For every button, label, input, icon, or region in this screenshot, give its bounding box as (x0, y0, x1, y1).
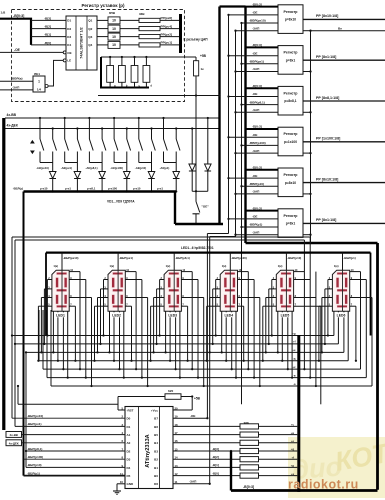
svg-text:33В: 33В (139, 12, 145, 16)
svg-text:1(к): 1(к) (222, 264, 227, 268)
svg-text:D1: D1 (67, 19, 71, 23)
svg-text:-ОЕ: -ОЕ (252, 215, 258, 219)
svg-text:VD1...VD9 ГД507А: VD1...VD9 ГД507А (107, 200, 135, 204)
thick data bus vertical east (244, 7, 246, 244)
svg-text:620: 620 (168, 389, 173, 393)
resistor 366 #7 (240, 473, 259, 478)
svg-text:-В[0:3]: -В[0:3] (243, 485, 254, 489)
svg-text:р=8х8,1: р=8х8,1 (284, 99, 296, 103)
LED1 pin 8 (69, 297, 91, 299)
svg-text:-ВБР(р10): -ВБР(р10) (249, 182, 264, 186)
svg-text:-ОЕ: -ОЕ (14, 48, 21, 52)
svg-text:GND: GND (127, 482, 135, 486)
svg-text:-АК(р8,1): -АК(р8,1) (85, 166, 97, 170)
svg-text:Q3: Q3 (88, 35, 92, 39)
svg-text:ЛЕ1: ЛЕ1 (34, 72, 40, 76)
svg-text:+е: +е (291, 440, 295, 443)
left bus bar (2, 118, 5, 430)
svg-text:LE: LE (67, 59, 71, 63)
LED5 pin 3 (269, 288, 277, 290)
segment net row +е (26, 351, 344, 353)
svg-text:D2: D2 (67, 27, 71, 31)
wire -В[0] (31, 44, 66, 46)
svg-text:р=1х100: р=1х100 (284, 140, 297, 144)
svg-text:Регистр: Регистр (284, 214, 299, 218)
wire Q3 (97, 36, 108, 38)
svg-text:1(к): 1(к) (334, 264, 339, 268)
svg-text:-В[1]: -В[1] (44, 33, 51, 37)
watermark tint (288, 437, 385, 498)
netlabel -VBR reg6 (240, 226, 242, 228)
LED4 bottom pins (221, 311, 223, 352)
netlabel -D[0:3] reg6 (246, 210, 279, 212)
svg-text:-ЗАП: -ЗАП (189, 479, 197, 483)
svg-text:-ВБР(рх10): -ВБР(рх10) (63, 256, 79, 260)
LED4 pin 4 (210, 297, 221, 299)
svg-text:+е: +е (292, 349, 296, 352)
svg-text:-ЗАП: -ЗАП (252, 230, 260, 234)
bold B bus vertical (230, 451, 232, 491)
wire to resistor 33 (120, 44, 139, 46)
svg-text:B7: B7 (154, 417, 158, 421)
LED3 pin 9 (181, 279, 198, 281)
svg-text:-D[0:3]: -D[0:3] (252, 2, 262, 6)
display LED6 cathode wire (342, 253, 344, 271)
MCU U7 ATtiny2313A (125, 407, 173, 489)
wire -В[1] (31, 36, 66, 38)
wire mcu pin 6 (22, 442, 126, 444)
LED6 pin 7 (350, 305, 356, 307)
svg-text:4х-ВВ: 4х-ВВ (7, 113, 17, 117)
svg-text:-В[2]: -В[2] (212, 455, 219, 459)
display LED4 cathode wire (229, 253, 231, 271)
svg-text:-ЗАП: -ЗАП (252, 67, 260, 71)
svg-text:р-и1: р-и1 (157, 187, 163, 191)
svg-text:1(к): 1(к) (110, 264, 115, 268)
LED4 pin 2 (216, 279, 221, 281)
wire aux row a (18, 403, 118, 405)
svg-text:-ЗАП: -ЗАП (252, 26, 260, 30)
svg-text:-В[2]: -В[2] (44, 25, 51, 29)
svg-text:-в: -в (293, 374, 296, 377)
svg-text:-ВБР(в): -ВБР(в) (11, 76, 23, 80)
svg-text:РР [8х10:1/8]: РР [8х10:1/8] (316, 14, 338, 18)
display LED1 body (52, 270, 69, 311)
svg-text:1(к): 1(к) (53, 264, 58, 268)
resistor a (107, 66, 114, 83)
netlabel -D[0:3] reg1 (246, 6, 279, 8)
svg-text:-АК(р1): -АК(р1) (160, 166, 170, 170)
svg-text:р-и100: р-и100 (108, 187, 117, 191)
LED5 pin 10 (294, 271, 305, 273)
display LED3 segments (168, 272, 179, 275)
svg-text:р-и10: р-и10 (40, 187, 48, 191)
row 3 left riser (38, 310, 40, 361)
resistor 366 #2 (240, 432, 259, 437)
svg-text:4х-ВВ: 4х-ВВ (10, 433, 18, 437)
display LED5 segments (281, 272, 292, 275)
netlabel -ZAP reg1 (234, 30, 236, 32)
svg-text:-ВБР(р100): -ВБР(р100) (249, 141, 266, 145)
svg-text:-ВБР(р10): -ВБР(р10) (27, 463, 42, 467)
wire -В[2] (31, 28, 66, 30)
wire +5 rail (98, 95, 220, 97)
connector bar right (297, 335, 300, 492)
svg-text:-В[3]: -В[3] (44, 16, 51, 20)
LED5 pin 4 (266, 297, 277, 299)
wire to R7 (173, 475, 240, 477)
LED4 pin 10 (238, 271, 249, 273)
LED5 pin 8 (294, 297, 316, 299)
svg-text:+g: +g (292, 332, 296, 335)
bus vertical -OE net (228, 15, 230, 234)
segment net row -д (39, 360, 348, 362)
svg-text:-ОЕ: -ОЕ (190, 414, 196, 418)
display LED1 through wire (61, 270, 63, 311)
row end g (11, 334, 13, 336)
svg-text:"ОЕ": "ОЕ" (202, 205, 210, 209)
diode VD9 (207, 117, 209, 119)
LED6 bottom pins (333, 311, 335, 335)
thick cathode bus (24, 190, 177, 192)
svg-text:10: 10 (112, 19, 116, 23)
display LED2 cathode wire (117, 253, 119, 271)
resistor 10 #1 (108, 17, 120, 24)
display LED3 cathode wire (173, 253, 175, 271)
svg-text:р=8х1: р=8х1 (286, 222, 296, 226)
register U4 box (278, 86, 303, 115)
LED6 pin 2 (328, 279, 333, 281)
svg-text:-ВБР(р1): -ВБР(р1) (27, 471, 40, 475)
LED2 pin 5 (95, 305, 109, 307)
register U5 box (278, 127, 303, 156)
netlabel -VBR reg1 (240, 22, 242, 24)
wire Vcc (173, 409, 192, 411)
wire mcu pin 2 (12, 417, 125, 419)
LED3 pin 3 (157, 288, 165, 290)
netlabel -VBR reg3 (240, 103, 242, 105)
svg-text:Q2: Q2 (88, 27, 92, 31)
row tap e (25, 352, 27, 467)
svg-text:-ВБР(р100): -ВБР(р100) (27, 455, 43, 459)
bus tap 4x-VV (6, 432, 22, 438)
svg-text:р-и8,1: р-и8,1 (87, 187, 96, 191)
wire -ZAP to mcu (173, 483, 210, 485)
resistor 10 #3 (108, 33, 120, 40)
svg-text:р=8х1: р=8х1 (286, 58, 296, 62)
svg-text:-ВБР(рх1): -ВБР(рх1) (119, 256, 133, 260)
svg-text:D0: D0 (127, 417, 131, 421)
svg-text:-АК(р10): -АК(р10) (135, 166, 146, 170)
LED4 pin 3 (213, 288, 221, 290)
display LED2 through wire (117, 270, 119, 311)
LED3 pin 8 (181, 297, 203, 299)
resistor b (119, 66, 126, 83)
display LED4 segments (225, 272, 236, 275)
LED3 pin 4 (154, 297, 165, 299)
netlabel -OE reg5 (227, 177, 229, 179)
LED2 pin 10 (125, 271, 136, 273)
LED6 pin 5 (319, 305, 333, 307)
wire to R5 (173, 458, 240, 460)
wire PP output reg6 (303, 222, 385, 224)
svg-text:-АК(рх10): -АК(рх10) (36, 166, 49, 170)
display LED1 segments (56, 272, 67, 275)
svg-text:10: 10 (112, 43, 116, 47)
svg-text:-ВБР(рх10): -ВБР(рх10) (249, 19, 266, 23)
svg-text:-ВБР(р1): -ВБР(р1) (343, 256, 355, 260)
register U3 box (278, 46, 303, 75)
segment net row -в (47, 377, 366, 379)
wire to R2 (173, 434, 240, 436)
svg-text:+g: +g (291, 448, 295, 451)
svg-text:LED4: LED4 (224, 314, 233, 318)
wire mcu pin 3 (15, 425, 125, 427)
row 4 left riser (42, 310, 44, 369)
wire LE1 out to LE pin (48, 60, 63, 86)
LED2 bottom pins (109, 311, 111, 352)
wire mcu pin 7 (26, 450, 125, 452)
svg-text:1: 1 (38, 80, 40, 84)
wire Q2 (97, 28, 108, 30)
svg-text:-ОЕ: -ОЕ (252, 174, 258, 178)
LED3 pin 2 (160, 279, 165, 281)
bus aux dot (218, 94, 220, 96)
LED1 pin 2 (47, 279, 52, 281)
svg-text:-ОЕ: -ОЕ (252, 92, 258, 96)
diode VD5 (151, 163, 153, 172)
wire 1k to switch OE (195, 76, 197, 96)
svg-text:LED1: LED1 (56, 314, 65, 318)
svg-text:Q1: Q1 (88, 19, 92, 23)
svg-text:р=8х10: р=8х10 (285, 181, 296, 185)
wire to R4 (173, 450, 240, 452)
wire PP out #4 (160, 44, 179, 46)
svg-text:-ЗАП: -ЗАП (252, 149, 260, 153)
svg-text:+с: +с (292, 366, 296, 369)
register U6 box (278, 168, 303, 197)
row end f (14, 343, 16, 345)
svg-text:1/4: 1/4 (37, 88, 42, 92)
svg-text:-D[0:3]: -D[0:3] (252, 206, 262, 210)
wire reg6 chain pin (303, 234, 311, 236)
svg-text:-В[1]: -В[1] (212, 463, 219, 467)
netlabel -D[0:3] reg5 (246, 169, 279, 171)
svg-text:A1: A1 (127, 433, 131, 437)
LED1 pin 10 (69, 271, 80, 273)
svg-text:-D[0:3]: -D[0:3] (252, 84, 262, 88)
svg-text:РР [1х100:1/8]: РР [1х100:1/8] (316, 137, 340, 141)
svg-text:A0: A0 (127, 441, 131, 445)
svg-text:+в: +в (291, 432, 295, 435)
LED5 pin 9 (294, 279, 311, 281)
svg-text:Ве: Ве (338, 27, 342, 31)
svg-text:-В[0]: -В[0] (44, 41, 51, 45)
wire mcu pin 4 (22, 434, 126, 436)
svg-text:+5В: +5В (194, 397, 201, 401)
svg-text:-АК(р100): -АК(р100) (110, 166, 123, 170)
wire PP output reg5 (303, 182, 385, 184)
svg-text:р-и10: р-и10 (133, 187, 141, 191)
wire to R1 (173, 425, 240, 427)
svg-text:-ЗАП: -ЗАП (252, 108, 260, 112)
netlabel -VBR reg5 (240, 185, 242, 187)
resistor 366 #3 (240, 440, 259, 445)
wrap wire A (12, 236, 310, 238)
connector bar DAC (179, 14, 182, 53)
segment net row +с (43, 368, 361, 370)
svg-text:РР [8х8,1:1/8]: РР [8х8,1:1/8] (316, 96, 339, 100)
resistor 366 #5 (240, 457, 259, 462)
wire PP out #2 (160, 28, 179, 30)
LED3 pin 10 (181, 271, 192, 273)
svg-text:Регистр: Регистр (284, 173, 299, 177)
svg-text:РР [8х1:1/8]: РР [8х1:1/8] (316, 218, 336, 222)
segment net row +g (12, 335, 334, 337)
svg-text:ОЕ: ОЕ (67, 51, 71, 55)
mcu gnd (117, 483, 125, 485)
netlabel -ZAP reg6 (234, 234, 236, 236)
row 5 left riser (46, 310, 48, 378)
LED1 pin 7 (69, 305, 75, 307)
svg-text:Регистр: Регистр (284, 10, 299, 14)
svg-text:р-и1: р-и1 (65, 187, 71, 191)
svg-text:D2: D2 (127, 449, 131, 453)
switch group 1 (39, 117, 41, 119)
svg-text:74ALS873ВНТ 1/2: 74ALS873ВНТ 1/2 (80, 27, 84, 58)
LED1 pin 4 (41, 297, 52, 299)
LED5 bottom pins (277, 311, 279, 352)
svg-text:10: 10 (112, 27, 116, 31)
netlabel -D[0:3] reg4 (246, 128, 279, 130)
svg-text:-ЗАП: -ЗАП (12, 85, 20, 89)
svg-text:Регистр: Регистр (284, 132, 299, 136)
netlabel -OE reg4 (227, 136, 229, 138)
svg-text:-D[0:3]: -D[0:3] (252, 43, 262, 47)
svg-text:B3: B3 (154, 449, 158, 453)
wire Q4 (97, 44, 108, 46)
display LED4 body (220, 270, 237, 311)
LED4 pin 5 (207, 305, 221, 307)
switch group 2 (64, 117, 66, 119)
svg-text:-В[0:3]: -В[0:3] (13, 14, 24, 18)
diode VD6 (175, 163, 177, 172)
thick right loop vertical (376, 243, 379, 490)
svg-text:D5: D5 (127, 474, 131, 478)
svg-text:LED2: LED2 (112, 314, 121, 318)
svg-text:-В[3]: -В[3] (212, 447, 219, 451)
svg-text:-ВБР(рх1): -ВБР(рх1) (249, 60, 264, 64)
LED2 pin 7 (125, 305, 131, 307)
display LED6 segments (337, 272, 348, 275)
display LED4 through wire (229, 270, 231, 311)
segment net row +f (15, 343, 338, 345)
svg-text:1;В: 1;В (1, 11, 7, 15)
svg-text:B5: B5 (154, 433, 158, 437)
wrap wire B (15, 239, 304, 241)
register chip U1 74ALS873 (66, 16, 97, 70)
arrow up marker (30, 140, 35, 144)
netlabel -ZAP reg2 (234, 70, 236, 72)
resistor 366 #6 (240, 465, 259, 470)
resistor 33V #3 (139, 35, 160, 39)
wire PP output reg3 (303, 100, 385, 102)
svg-text:Регистр: Регистр (284, 91, 299, 95)
register U2 box (278, 5, 303, 34)
netlabel -D[0:3] reg2 (246, 46, 279, 48)
svg-text:+5В: +5В (200, 54, 207, 58)
LED3 bottom pins (165, 311, 167, 352)
svg-text:8ПВ: 8ПВ (109, 11, 116, 15)
svg-text:B2: B2 (154, 458, 158, 462)
wire to R3 (173, 442, 240, 444)
wire to R6 (173, 466, 240, 468)
wire PP output reg4 (303, 141, 385, 143)
svg-text:1(к): 1(к) (166, 264, 171, 268)
wire mcu pin 11 (24, 475, 126, 477)
svg-text:D4: D4 (127, 466, 131, 470)
diode VD2 (76, 163, 78, 172)
wire reg4 chain pin (303, 152, 311, 154)
netlabel -ZAP reg4 (234, 152, 236, 154)
row 6 left riser (50, 310, 52, 386)
switch group 5 (138, 117, 140, 119)
svg-text:B0: B0 (154, 474, 158, 478)
LED6 pin 9 (350, 279, 367, 281)
display LED5 cathode wire (285, 253, 287, 271)
diode VD4 (126, 163, 128, 172)
svg-text:-D[0:3]: -D[0:3] (252, 125, 262, 129)
svg-text:-ВБР(р8,1): -ВБР(р8,1) (175, 256, 190, 260)
LED3 pin 5 (151, 305, 165, 307)
display LED2 body (108, 270, 125, 311)
netlabel -VBR reg2 (240, 63, 242, 65)
display LED5 through wire (285, 270, 287, 311)
resistor 33V #4 (139, 43, 160, 47)
resistor 33V #1 (139, 18, 160, 22)
LED5 pin 5 (263, 305, 277, 307)
svg-text:+с: +с (291, 424, 295, 427)
svg-text:+f: +f (292, 455, 295, 459)
resistor 366 #4 (240, 448, 259, 453)
switch group 6 (162, 117, 164, 119)
wire reg2 chain pin (303, 71, 311, 73)
netlabel -VBR reg4 (240, 144, 242, 146)
svg-text:D3: D3 (67, 35, 71, 39)
bus tap 4x-DEK (6, 440, 22, 446)
thick horizontal to right loop (246, 242, 378, 244)
diode VD3 (101, 163, 103, 172)
wire PP out #3 (160, 36, 179, 38)
svg-text:-ВБР(р10): -ВБР(р10) (287, 256, 301, 260)
LED3 pin 7 (181, 305, 187, 307)
wire mcu pin 8 (24, 458, 126, 460)
thick VBR(p) drop (23, 192, 25, 476)
LED panel border (46, 252, 371, 254)
register U7 box (278, 209, 303, 238)
svg-text:1(к): 1(к) (278, 264, 283, 268)
wire to resistor 33 (120, 19, 139, 21)
display LED3 body (164, 270, 181, 311)
wire reg5 chain pin (303, 193, 311, 195)
wire Ve out (311, 30, 385, 32)
svg-text:-ВБР(рх10): -ВБР(рх10) (27, 414, 43, 418)
svg-text:D4: D4 (67, 43, 71, 47)
wire PP output reg2 (303, 59, 385, 61)
svg-text:р=8х10: р=8х10 (285, 18, 296, 22)
display LED6 body (332, 270, 349, 311)
svg-text:РР(рх8]: РР(рх8] (161, 16, 172, 20)
